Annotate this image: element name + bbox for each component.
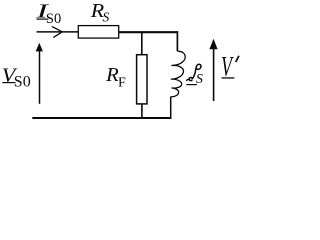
label L_S script glyph [186,64,201,80]
arrow V' head [209,39,217,50]
resistor R_F [137,55,147,104]
underline of L_S [186,84,196,85]
wire right branch stub [176,31,178,51]
source arrow V_S0 stem [39,50,41,104]
svg-text:S: S [103,10,110,25]
underline of I [36,19,48,20]
underline of V' [222,77,235,78]
current arrow I_S0 head [52,26,62,37]
wire right branch lower [170,97,172,119]
wire bottom [32,117,171,119]
arrow V' stem [213,49,215,102]
underline of V [2,82,15,83]
svg-text:S: S [196,72,203,87]
prime of V' [236,56,239,62]
wire top-right segment [119,31,179,33]
wire R_F branch lower [141,104,143,119]
svg-text:S0: S0 [14,74,31,91]
inductor L_S coil [171,51,186,97]
wire top-left segment [37,31,79,33]
resistor R_S [78,26,118,38]
source arrow V_S0 head [36,43,43,52]
wire R_F branch upper [141,32,143,55]
svg-text:F: F [118,75,126,90]
